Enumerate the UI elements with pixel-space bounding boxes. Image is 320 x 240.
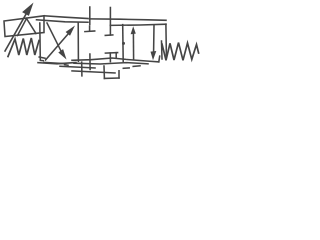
valve body bottom edge upper stroke [72,58,159,62]
right spring end bar [161,41,164,59]
right spring [162,43,199,61]
closed port B bar [105,34,113,37]
valve body bottom right corner [158,56,161,62]
crossed arrow 1 shaft (left position) [46,34,69,60]
closed bottom ports bar [105,52,117,55]
lower pipe dash left [65,64,68,67]
port line below body centre [89,54,91,70]
closed bottom port leg 2 [115,53,117,58]
valve body left edge [40,23,43,61]
lower dash right 1 [123,67,129,69]
junction nub on divider 2 [122,42,125,45]
crossed arrow 1 head [66,26,75,36]
valve body bottom edge lower stroke [38,63,76,64]
up arrow shaft (right position) [132,33,134,60]
lower dash right 2 [133,65,140,68]
valve body top edge right [90,19,167,20]
solenoid internal chevron [18,19,37,36]
left spring [8,38,39,57]
lower pipe line 1 [60,66,95,68]
lower pipe line 2 [72,71,115,73]
crossed arrow 2 head [58,49,66,59]
left spring foot [39,57,45,58]
solenoid box [4,16,44,37]
proportional adjustment arrow shaft [5,12,28,52]
lower bracket bottom [104,77,119,79]
down arrow shaft (right position) [153,25,155,52]
closed port A bar [85,30,95,33]
port line A above body [89,7,91,24]
position divider 2 [122,25,125,62]
lower vertical at 104 [103,66,105,78]
position divider 1 [77,23,79,61]
bottom-left dash [44,62,64,63]
lower bracket right edge [118,71,120,78]
solenoid box top extension line [44,16,88,19]
port stub below body left-centre [81,62,83,76]
valve body bottom second line [74,63,148,64]
crossed arrow 2 shaft [47,23,61,51]
up arrow head [131,26,136,34]
port line B / closed port B stub [109,8,111,36]
closed bottom port leg 1 [109,53,111,62]
right position top line [110,24,166,25]
closed port A stub [89,26,91,31]
down arrow head [151,51,157,60]
proportional adjustment arrowhead [22,3,33,16]
right position right edge [165,24,168,56]
valve body top edge left [37,20,89,22]
